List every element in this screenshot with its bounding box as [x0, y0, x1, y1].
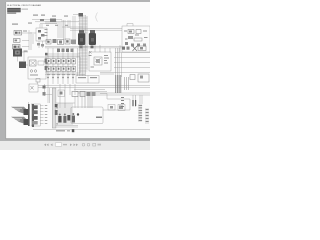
- svg-text:ELECTRICAL CIRCUIT DIAGRAM: ELECTRICAL CIRCUIT DIAGRAM: [7, 4, 41, 7]
